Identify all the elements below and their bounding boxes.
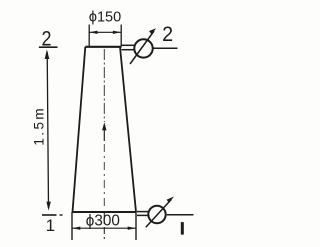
section 1-1 left tick (broken) [42, 214, 57, 216]
phi150 dimension line [89, 31, 121, 33]
svg-text:2: 2 [162, 23, 173, 46]
phi150 right arrowhead [113, 31, 121, 34]
section 1-1 stub double line to circle [137, 211, 150, 213]
section 2-2 indicator diagonal arrow [130, 31, 154, 64]
column outline: bottom edge [72, 211, 137, 213]
section 1-1 indicator diagonal arrow [146, 200, 171, 228]
phi300 left arrowhead [72, 227, 80, 230]
phi150 right extension line [120, 25, 122, 47]
svg-text:ϕ300: ϕ300 [86, 212, 120, 229]
paper background [0, 0, 201, 247]
column outline: right slanted edge [120, 47, 136, 212]
centerline (column axis, dashed) [103, 49, 105, 122]
column outline: top edge (section 2-2 line) [85, 46, 121, 48]
section 1-1 view indicator circle [148, 206, 165, 223]
phi300 left extension line [71, 212, 73, 240]
svg-text:ϕ150: ϕ150 [89, 10, 121, 26]
axis up-arrow on centerline [102, 122, 106, 130]
column outline: left slanted edge [73, 47, 86, 212]
svg-text:1: 1 [46, 216, 55, 235]
section 2-2 view indicator circle [134, 39, 152, 57]
section 2-2 left tick [39, 46, 58, 48]
phi150 left extension line [88, 25, 90, 47]
section 1-1 right label "1" [181, 222, 184, 235]
svg-text:1.5m: 1.5m [31, 106, 46, 146]
phi300 dimension line [72, 227, 136, 229]
svg-text:2: 2 [42, 27, 52, 50]
height dimension line 1.5m (vertical) [47, 52, 48, 208]
height dimension bottom arrowhead (down) [46, 202, 50, 211]
section 2-2 line to the right [153, 47, 178, 49]
section 2-2 stub double line to circle [122, 44, 135, 46]
height dimension top arrowhead (up) [45, 49, 50, 59]
phi300 right arrowhead [128, 227, 136, 230]
phi300 right extension line [135, 212, 137, 240]
section 1-1 line to the right [167, 214, 194, 216]
phi150 left arrowhead [90, 31, 98, 34]
